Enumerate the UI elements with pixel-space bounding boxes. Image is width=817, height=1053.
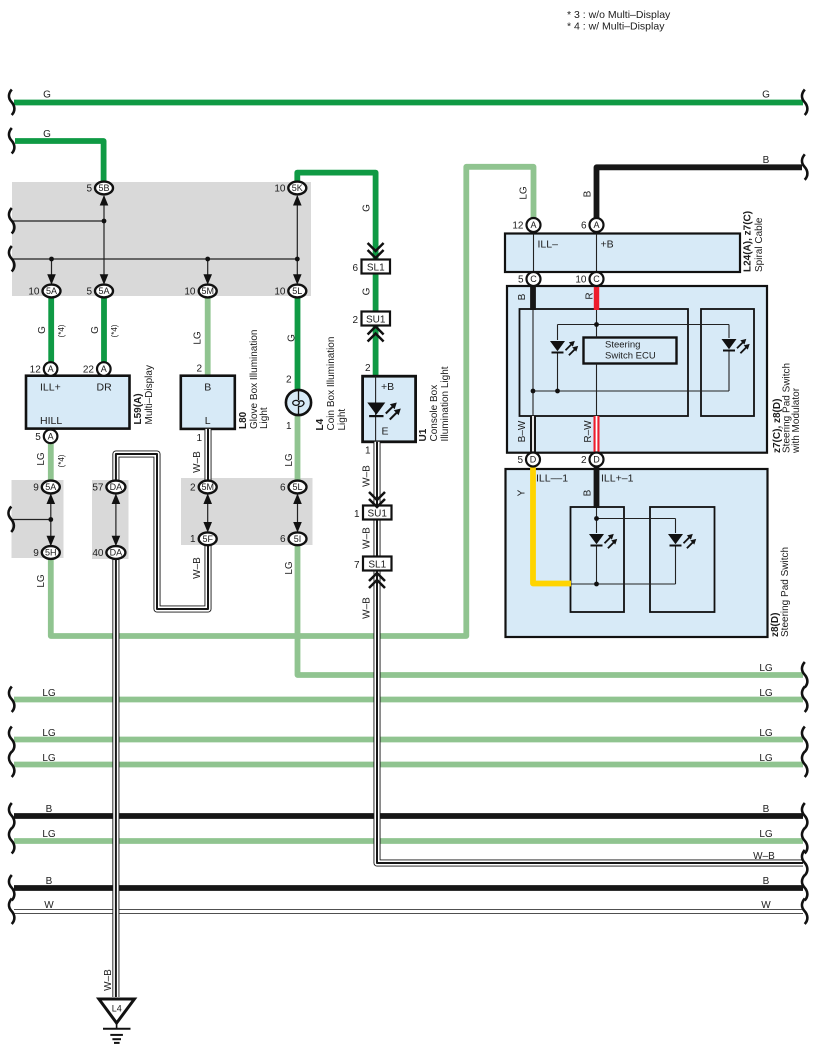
svg-text:6: 6 xyxy=(280,483,286,494)
svg-text:G: G xyxy=(362,287,373,295)
svg-text:5A: 5A xyxy=(46,286,57,296)
svg-text:* 3 : w/o Multi–Display: * 3 : w/o Multi–Display xyxy=(567,9,671,21)
svg-text:5A: 5A xyxy=(98,286,109,296)
svg-text:G: G xyxy=(43,129,51,140)
svg-text:5B: 5B xyxy=(98,183,109,193)
svg-text:W–B: W–B xyxy=(362,597,373,619)
svg-text:B: B xyxy=(46,804,53,815)
svg-text:LG: LG xyxy=(42,728,56,739)
svg-text:2: 2 xyxy=(581,455,587,466)
svg-text:B: B xyxy=(582,190,593,197)
svg-text:9: 9 xyxy=(33,548,39,559)
svg-text:Light: Light xyxy=(337,409,348,431)
svg-text:ILL+: ILL+ xyxy=(40,382,61,394)
svg-text:5I: 5I xyxy=(294,534,302,544)
svg-text:C: C xyxy=(530,274,537,284)
svg-text:W: W xyxy=(761,900,771,911)
svg-text:LG: LG xyxy=(42,829,56,840)
svg-text:B: B xyxy=(204,382,211,394)
svg-text:LG: LG xyxy=(36,452,47,466)
svg-text:SL1: SL1 xyxy=(368,560,386,571)
svg-text:SU1: SU1 xyxy=(366,315,386,326)
svg-text:5: 5 xyxy=(518,275,524,286)
svg-text:2: 2 xyxy=(190,483,196,494)
svg-text:DR: DR xyxy=(97,382,113,394)
svg-text:Console Box: Console Box xyxy=(429,385,440,442)
svg-text:D: D xyxy=(530,455,537,465)
svg-text:12: 12 xyxy=(30,365,42,376)
svg-text:W–B: W–B xyxy=(362,527,373,549)
svg-text:5M: 5M xyxy=(201,482,214,492)
svg-text:(*4): (*4) xyxy=(57,454,66,467)
svg-text:+B: +B xyxy=(381,381,394,393)
svg-text:Illumination Light: Illumination Light xyxy=(440,366,451,441)
svg-text:U1: U1 xyxy=(418,428,429,441)
svg-text:5L: 5L xyxy=(292,286,302,296)
svg-text:W–B: W–B xyxy=(362,465,373,487)
svg-text:ILL+–1: ILL+–1 xyxy=(601,473,634,485)
svg-text:40: 40 xyxy=(92,548,104,559)
svg-text:LG: LG xyxy=(284,561,295,575)
svg-text:LG: LG xyxy=(759,728,773,739)
svg-text:A: A xyxy=(101,364,107,374)
svg-text:L59(A): L59(A) xyxy=(133,393,144,424)
svg-text:B: B xyxy=(763,155,770,166)
svg-text:DA: DA xyxy=(110,548,123,558)
svg-text:6: 6 xyxy=(581,221,587,232)
svg-text:A: A xyxy=(593,220,599,230)
svg-text:R–W: R–W xyxy=(583,420,594,443)
svg-text:5M: 5M xyxy=(201,286,214,296)
svg-text:(*4): (*4) xyxy=(57,324,66,337)
svg-text:LG: LG xyxy=(518,186,529,200)
svg-text:10: 10 xyxy=(575,275,587,286)
svg-text:LG: LG xyxy=(36,574,47,588)
svg-text:Multi–Display: Multi–Display xyxy=(144,365,155,424)
svg-text:5H: 5H xyxy=(45,548,57,558)
svg-text:1: 1 xyxy=(196,433,202,444)
svg-text:HILL: HILL xyxy=(40,415,62,427)
svg-text:12: 12 xyxy=(512,221,524,232)
svg-text:Spiral Cable: Spiral Cable xyxy=(754,217,765,272)
svg-text:5A: 5A xyxy=(45,482,56,492)
svg-text:LG: LG xyxy=(193,331,204,345)
svg-text:6: 6 xyxy=(352,263,358,274)
svg-text:B: B xyxy=(763,876,770,887)
svg-text:5F: 5F xyxy=(202,534,213,544)
svg-text:G: G xyxy=(90,326,101,334)
svg-text:B: B xyxy=(583,489,594,496)
svg-text:B–W: B–W xyxy=(517,420,528,442)
svg-text:6: 6 xyxy=(280,534,286,545)
svg-text:W–B: W–B xyxy=(753,851,775,862)
svg-text:Coin Box Illumination: Coin Box Illumination xyxy=(326,337,337,431)
svg-text:+B: +B xyxy=(601,239,614,251)
svg-text:22: 22 xyxy=(83,365,95,376)
svg-text:10: 10 xyxy=(274,184,286,195)
svg-text:57: 57 xyxy=(92,483,104,494)
svg-text:W: W xyxy=(44,900,54,911)
svg-text:W–B: W–B xyxy=(192,557,203,579)
svg-text:5K: 5K xyxy=(292,183,303,193)
svg-text:B: B xyxy=(517,293,528,300)
svg-text:Steering: Steering xyxy=(605,340,640,351)
svg-text:1: 1 xyxy=(286,421,292,432)
svg-text:5: 5 xyxy=(86,184,92,195)
svg-text:7: 7 xyxy=(354,560,360,571)
svg-text:ILL––1: ILL––1 xyxy=(536,473,568,485)
svg-text:D: D xyxy=(593,455,600,465)
svg-text:SU1: SU1 xyxy=(368,509,388,520)
svg-text:L4: L4 xyxy=(112,1004,122,1014)
svg-text:DA: DA xyxy=(110,482,123,492)
svg-text:5L: 5L xyxy=(292,482,302,492)
svg-text:5: 5 xyxy=(35,432,41,443)
svg-text:10: 10 xyxy=(274,287,286,298)
svg-text:1: 1 xyxy=(365,446,371,457)
svg-text:(*4): (*4) xyxy=(110,324,119,337)
svg-text:1: 1 xyxy=(354,509,360,520)
svg-text:G: G xyxy=(362,204,373,212)
svg-text:with Modulator: with Modulator xyxy=(791,387,802,454)
svg-text:R: R xyxy=(585,292,596,299)
svg-text:Y: Y xyxy=(517,489,528,496)
svg-text:L80: L80 xyxy=(238,411,249,429)
svg-text:Light: Light xyxy=(259,407,270,429)
svg-text:1: 1 xyxy=(190,534,196,545)
svg-text:10: 10 xyxy=(184,287,196,298)
svg-text:LG: LG xyxy=(284,453,295,467)
svg-text:A: A xyxy=(530,220,536,230)
svg-text:LG: LG xyxy=(42,688,56,699)
svg-text:E: E xyxy=(382,426,389,438)
svg-text:5: 5 xyxy=(86,287,92,298)
svg-text:Switch ECU: Switch ECU xyxy=(605,351,656,362)
svg-text:LG: LG xyxy=(42,753,56,764)
svg-text:B: B xyxy=(763,804,770,815)
svg-text:W–B: W–B xyxy=(192,451,203,473)
svg-text:2: 2 xyxy=(196,364,202,375)
svg-text:LG: LG xyxy=(759,753,773,764)
svg-text:G: G xyxy=(287,334,298,342)
svg-text:2: 2 xyxy=(286,375,292,386)
svg-text:L4: L4 xyxy=(315,418,326,430)
svg-text:ILL–: ILL– xyxy=(538,239,559,251)
svg-text:LG: LG xyxy=(759,688,773,699)
svg-text:G: G xyxy=(762,90,770,101)
svg-text:A: A xyxy=(48,364,54,374)
svg-text:W–B: W–B xyxy=(103,969,114,991)
svg-text:G: G xyxy=(37,326,48,334)
svg-text:9: 9 xyxy=(33,483,39,494)
svg-text:L24(A), z7(C): L24(A), z7(C) xyxy=(743,211,754,272)
svg-text:2: 2 xyxy=(365,363,371,374)
svg-text:10: 10 xyxy=(28,287,40,298)
svg-text:B: B xyxy=(46,876,53,887)
svg-text:LG: LG xyxy=(759,829,773,840)
svg-text:5: 5 xyxy=(517,455,523,466)
svg-text:2: 2 xyxy=(352,315,358,326)
svg-text:L: L xyxy=(205,415,211,427)
svg-text:G: G xyxy=(43,90,51,101)
svg-text:A: A xyxy=(48,432,54,442)
svg-text:* 4 : w/ Multi–Display: * 4 : w/ Multi–Display xyxy=(567,21,665,33)
svg-text:Steering Pad Switch: Steering Pad Switch xyxy=(780,547,791,637)
svg-text:SL1: SL1 xyxy=(367,263,385,274)
svg-text:C: C xyxy=(593,274,600,284)
svg-text:LG: LG xyxy=(759,663,773,674)
